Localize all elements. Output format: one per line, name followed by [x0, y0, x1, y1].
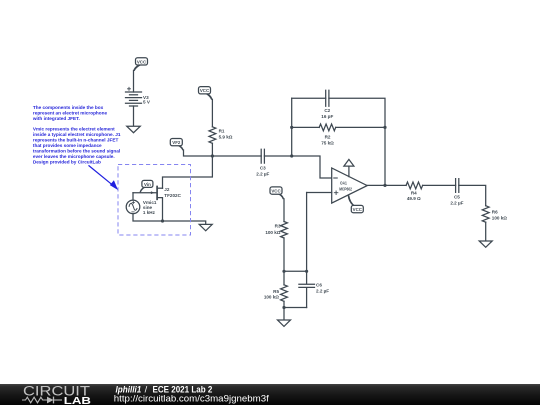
- CircuitLab logo: [22, 383, 91, 405]
- svg-text:inside a typical electret micr: inside a typical electret microphone. J1: [33, 132, 121, 137]
- node R3 R5: [282, 270, 285, 273]
- resistor R6: [482, 206, 507, 223]
- svg-text:represent an electret micropho: represent an electret microphone: [33, 110, 108, 115]
- net flag VCC (op-amp V-): [348, 195, 364, 213]
- svg-text:5 V: 5 V: [143, 100, 151, 105]
- wire feedback left vertical: [291, 98, 293, 156]
- wire feedback top: [292, 98, 385, 127]
- svg-text:100 kΩ: 100 kΩ: [492, 216, 507, 221]
- source Vmic1: [126, 200, 157, 215]
- wire R4 to C5: [423, 184, 456, 186]
- op-amp OA1: [332, 168, 368, 203]
- svg-text:2.2 µF: 2.2 µF: [316, 288, 329, 293]
- svg-text:R2: R2: [325, 135, 331, 140]
- svg-text:C6: C6: [316, 282, 322, 287]
- annotation arrow: [89, 165, 119, 190]
- svg-text:VCC: VCC: [271, 189, 281, 194]
- annotation text: [32, 105, 121, 164]
- net flag Vin: [140, 180, 153, 192]
- svg-text:16 pF: 16 pF: [321, 114, 333, 119]
- wire Vmic1 bottom: [133, 214, 206, 225]
- wire R1 bottom: [211, 143, 213, 156]
- resistor R2: [319, 124, 336, 146]
- svg-text:R6: R6: [492, 210, 498, 215]
- resistor R4: [406, 182, 423, 201]
- wire C5 to R6: [459, 185, 486, 205]
- svg-text:2.2 µF: 2.2 µF: [450, 201, 463, 206]
- net flag VCC (R1): [199, 87, 213, 100]
- svg-text:1 kHz: 1 kHz: [143, 210, 156, 215]
- JFET J2: [133, 187, 182, 222]
- wire feedback right vertical: [384, 127, 386, 185]
- wire R6 bottom: [485, 222, 487, 241]
- svg-text:5.9 kΩ: 5.9 kΩ: [219, 135, 233, 140]
- microphone dashed box: [118, 165, 191, 236]
- svg-text:represents the built-in n-chan: represents the built-in n-channel JFET: [33, 138, 119, 143]
- wire op-amp output: [367, 184, 406, 186]
- resistor R5: [264, 285, 288, 302]
- capacitor C3: [256, 149, 269, 176]
- svg-text:VCC: VCC: [200, 88, 210, 93]
- svg-text:that provides some impedance: that provides some impedance: [33, 143, 102, 148]
- svg-text:Design provided by CircuitLab: Design provided by CircuitLab: [33, 159, 101, 164]
- capacitor C2: [321, 90, 333, 119]
- svg-text:49.9 Ω: 49.9 Ω: [407, 196, 421, 201]
- wire R2 row: [292, 126, 385, 128]
- svg-text:MCP602: MCP602: [339, 186, 352, 191]
- net flag VCC (battery): [133, 58, 147, 71]
- ground (battery): [127, 126, 140, 132]
- battery V3: [126, 87, 151, 106]
- resistor R3: [265, 222, 287, 239]
- svg-text:VCC: VCC: [353, 207, 363, 212]
- svg-text:R3: R3: [275, 224, 281, 229]
- wire node to C6 column: [284, 270, 307, 272]
- svg-text:ever leaves the microphone cap: ever leaves the microphone capsule.: [33, 154, 115, 159]
- ground (R6): [479, 241, 492, 247]
- wire Vmic1 top to gate: [132, 193, 134, 200]
- svg-text:TF202C: TF202C: [164, 193, 181, 198]
- svg-text:R1: R1: [219, 128, 225, 133]
- footer text: [114, 385, 269, 404]
- svg-text:http://circuitlab.com/c3ma9jgn: http://circuitlab.com/c3ma9jgnebm3f: [114, 394, 269, 404]
- svg-text:100 kΩ: 100 kΩ: [265, 230, 280, 235]
- node main R1 drain: [211, 154, 214, 157]
- wire R1 top: [211, 99, 213, 127]
- wire C6 bottom to R5: [284, 307, 307, 309]
- svg-text:The components inside the box: The components inside the box: [33, 105, 104, 110]
- svg-text:C5: C5: [454, 195, 460, 200]
- net flag VCC (R3): [270, 187, 284, 199]
- svg-text:LAB: LAB: [64, 396, 91, 405]
- net flag VF2: [170, 139, 183, 151]
- svg-text:R5: R5: [273, 289, 279, 294]
- svg-text:J2: J2: [164, 187, 170, 192]
- wire non-inverting input: [307, 192, 332, 194]
- wire battery top: [133, 71, 135, 93]
- wire R3 top: [283, 199, 285, 222]
- wire R5 to ground: [283, 301, 285, 320]
- svg-text:100 kΩ: 100 kΩ: [264, 295, 279, 300]
- node at feedback/input: [290, 154, 293, 157]
- svg-text:2.2 µF: 2.2 µF: [256, 172, 269, 177]
- svg-text:VCC: VCC: [137, 59, 147, 64]
- wire to non-inverting input vertical: [306, 193, 308, 272]
- capacitor C6: [299, 271, 329, 307]
- resistor R1: [209, 127, 233, 144]
- svg-text:with integrated JFET.: with integrated JFET.: [32, 116, 80, 121]
- ground (mic): [199, 224, 212, 230]
- wire R3 bottom to node: [283, 238, 285, 271]
- capacitor C5: [450, 179, 463, 206]
- svg-text:Vin: Vin: [144, 182, 151, 187]
- wire VF2 to main node: [184, 150, 262, 156]
- wire battery bottom: [133, 106, 135, 126]
- svg-text:OA1: OA1: [340, 181, 347, 186]
- wire drain path: [163, 156, 213, 188]
- svg-text:VF2: VF2: [172, 140, 181, 145]
- node feedback left R2: [290, 126, 293, 129]
- node feedback right R2: [383, 126, 386, 129]
- node R5 bottom: [282, 306, 285, 309]
- svg-text:Vmic represents the electret e: Vmic represents the electret element: [33, 127, 115, 132]
- op-amp V+ supply arrow: [344, 159, 354, 176]
- ground (R5): [278, 320, 291, 326]
- node output feedback: [383, 184, 386, 187]
- node source bottom: [161, 219, 164, 222]
- svg-text:75 kΩ: 75 kΩ: [321, 141, 334, 146]
- svg-text:C2: C2: [324, 108, 330, 113]
- node C6 top: [305, 270, 308, 273]
- wire C3 to op-amp input step: [264, 156, 331, 178]
- svg-text:transformation before the soun: transformation before the sound signal: [33, 149, 120, 154]
- svg-text:C3: C3: [260, 166, 266, 171]
- wire R5 top: [283, 271, 285, 285]
